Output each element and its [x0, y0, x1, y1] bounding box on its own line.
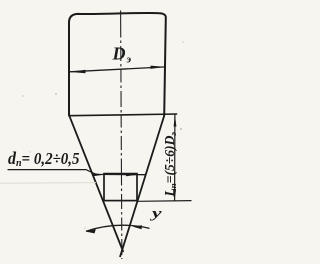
cone left side wire — [69, 116, 123, 252]
vessel cylindrical body outline — [69, 13, 166, 115]
faint scan streak — [0, 182, 96, 185]
Dэ dimension line — [70, 67, 166, 72]
vertical centerline — [121, 11, 122, 260]
Lп top arrowhead — [174, 114, 177, 126]
dп arrowhead at nozzle right wall — [126, 173, 137, 176]
dп arrowhead at nozzle left wall — [93, 173, 105, 176]
Lп vertical dimension line — [174, 114, 176, 200]
scan specks — [22, 95, 24, 97]
Dэ left arrowhead — [69, 70, 85, 74]
svg-text:у: у — [150, 205, 163, 220]
leader / dп dimension line — [8, 170, 146, 175]
Lп bottom extension line — [138, 200, 192, 203]
Lп bottom arrowhead — [173, 189, 176, 201]
shoulder line (cylinder bottom, extended right as Lп top extension line) — [69, 114, 178, 116]
arc right arrowhead — [133, 225, 142, 229]
paper background — [0, 0, 207, 264]
cone right side wire — [120, 116, 164, 257]
arc left arrowhead — [86, 229, 96, 233]
nozzle rectangle — [104, 174, 137, 201]
angle dimension arc — [86, 225, 150, 231]
Dэ right arrowhead — [151, 66, 166, 69]
